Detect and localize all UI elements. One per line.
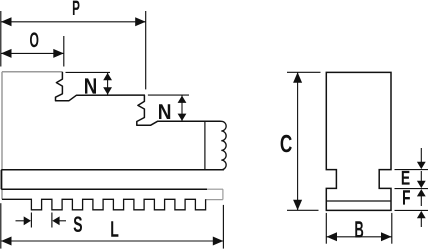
E/F reference line bottom	[395, 209, 428, 211]
dimension B extension line right	[391, 213, 393, 244]
dimension L extension line right	[222, 205, 224, 249]
label N2	[159, 104, 170, 119]
dimension S extension line left	[30, 213, 32, 228]
dimension E lower arrow	[420, 192, 422, 206]
label O	[30, 32, 38, 47]
guide band top edge	[1, 169, 224, 171]
dimension N1 reference line	[66, 71, 111, 73]
E/F reference line middle	[395, 188, 428, 190]
dimension F upper arrow	[420, 171, 422, 185]
label E	[402, 171, 410, 185]
dimension N2 reference line	[148, 94, 189, 96]
dimension F lower arrow	[420, 214, 422, 227]
serration root line and 9 teeth	[2, 199, 206, 210]
dimension O extension line right	[63, 36, 65, 67]
dimension B line with arrows	[327, 236, 392, 238]
dimension S extension line right	[51, 213, 53, 228]
dimension N2 arrow	[181, 95, 183, 121]
dimension C line with arrows	[297, 72, 299, 210]
label N1	[85, 78, 96, 93]
jaw blank top surface (grey)	[2, 71, 63, 73]
dimension E upper arrow	[420, 148, 422, 166]
guide band bottom edge (grey torn part)	[207, 188, 223, 190]
dimension L line with arrows	[1, 240, 223, 242]
label F	[403, 190, 410, 204]
label B	[355, 221, 363, 237]
label C	[281, 135, 292, 153]
break line coil (right torn edge)	[221, 121, 227, 170]
label S	[74, 216, 82, 232]
label P	[73, 1, 80, 15]
dimension B extension line left	[325, 213, 327, 244]
dimension C top reference line	[287, 71, 321, 73]
guide band bottom edge (black part)	[1, 188, 207, 190]
dimension O line with arrows	[1, 52, 64, 54]
dimension C bottom reference line	[287, 209, 319, 211]
E/F reference line top	[395, 169, 428, 171]
hidden edge at serration end	[204, 121, 206, 170]
jaw machined step profile (teeth/steps outline)	[56, 72, 221, 125]
dimension P extension line right	[145, 11, 147, 89]
dimension P extension line left	[0, 11, 2, 67]
end view internal line (tooth root face)	[326, 200, 391, 202]
label L	[111, 221, 118, 237]
dimension L extension line left	[0, 203, 2, 248]
torn region right edge (grey)	[222, 189, 224, 199]
jaw blank left edge (grey)	[1, 72, 3, 200]
guide band left edge	[0, 170, 2, 189]
torn region bottom edge (grey)	[206, 199, 223, 201]
dimension P line with arrows	[1, 21, 146, 23]
dimension N1 arrow	[107, 72, 109, 95]
dimension S right arrow	[55, 220, 66, 222]
end view body outline with side notches	[326, 72, 391, 210]
dimension S left arrow	[16, 220, 29, 222]
